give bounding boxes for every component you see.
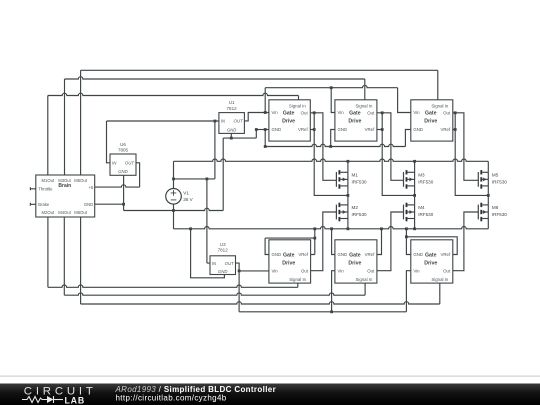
wire GND jog line: [124, 208, 224, 210]
svg-text:M4Out: M4Out: [58, 210, 71, 215]
svg-text:IRF530: IRF530: [492, 212, 508, 217]
transistor M4 IRF530: [403, 205, 405, 220]
wire GD6 GND riser: [406, 229, 410, 255]
svg-text:VRef: VRef: [298, 127, 308, 132]
svg-text:Gate: Gate: [349, 252, 361, 258]
svg-text:Signal In: Signal In: [431, 103, 448, 108]
svg-text:7812: 7812: [218, 248, 229, 253]
wire GD4 VRef riser: [311, 229, 315, 255]
svg-text:Vin: Vin: [272, 110, 279, 115]
svg-text:Vin: Vin: [338, 269, 345, 274]
regulator U1 7812: [219, 113, 245, 134]
wire gate drive VRef to phase: [310, 129, 314, 131]
gate drive U3a top box: [411, 100, 453, 141]
wire M1Out net: [47, 96, 49, 176]
svg-text:M2: M2: [352, 205, 359, 210]
svg-text:U6: U6: [120, 142, 126, 147]
node +36V junctions: [172, 178, 175, 181]
wire U1 GND stub: [230, 133, 232, 138]
svg-text:Gate: Gate: [425, 252, 437, 258]
wire gate drive VRef to phase: [377, 129, 382, 131]
wire bottom gate drive Out to FET gate: [453, 212, 479, 271]
svg-text:Signal In: Signal In: [289, 277, 306, 282]
svg-text:OUT: OUT: [234, 119, 243, 124]
wire gate drive Out to FET gate: [310, 113, 336, 181]
svg-text:GND: GND: [218, 269, 228, 274]
svg-text:VRef: VRef: [441, 127, 451, 132]
gate drive U5a bottom box: [335, 240, 377, 283]
wire U6 GND stub: [123, 175, 125, 210]
svg-text:Signal In: Signal In: [289, 103, 306, 108]
svg-text:Drive: Drive: [282, 261, 295, 267]
wire +36V top rail: [173, 161, 175, 179]
svg-text:Out: Out: [301, 111, 309, 116]
wire +36V branch to U1/U3 inputs: [174, 178, 215, 180]
wire U3 GND loop: [191, 229, 225, 278]
footer black bar: [0, 384, 540, 405]
wire top GND rail: [265, 144, 405, 146]
wire U1 IN line: [107, 120, 219, 122]
svg-text:36 V: 36 V: [183, 197, 193, 202]
footer separator line: [0, 375, 540, 377]
gate drive U2a top box: [335, 100, 377, 141]
wire M3 drain to +36V: [414, 161, 416, 172]
svg-text:Drive: Drive: [424, 119, 437, 125]
svg-text:Out: Out: [443, 111, 451, 116]
svg-text:Signal In: Signal In: [355, 277, 372, 282]
transistor M3 IRF530: [403, 172, 405, 187]
svg-text:7812: 7812: [227, 106, 238, 111]
wire V1- source rail: [174, 226, 489, 228]
svg-text:VRef: VRef: [365, 127, 375, 132]
wire M5 source to phase C: [487, 186, 489, 205]
wire M6 source to rail: [487, 219, 489, 229]
svg-text:Gate: Gate: [349, 111, 361, 117]
svg-text:Gate: Gate: [283, 111, 295, 117]
wire V1 minus lead: [173, 204, 175, 229]
svg-text:GND: GND: [413, 252, 423, 257]
transistor M2 IRF530: [335, 205, 337, 220]
wire M5 drain to +36V: [487, 161, 489, 172]
svg-text:VRef: VRef: [441, 252, 451, 257]
svg-text:Drive: Drive: [424, 261, 437, 267]
svg-text:OUT: OUT: [225, 261, 234, 266]
svg-text:Out: Out: [367, 269, 375, 274]
svg-text:GND: GND: [227, 128, 237, 133]
regulator U6 7805: [110, 154, 136, 175]
svg-text:Out: Out: [301, 269, 309, 274]
svg-text:IRF530: IRF530: [418, 212, 434, 217]
svg-text:M1: M1: [352, 172, 359, 177]
gate drive U1a top box: [269, 100, 310, 141]
wire GD5 GND riser: [332, 229, 335, 255]
transistor M1 IRF530: [335, 172, 337, 187]
svg-text:Vin: Vin: [413, 269, 420, 274]
wire M2 source to rail: [347, 219, 349, 229]
transistor M5 IRF530: [477, 172, 479, 187]
wire gate drive Out to FET gate: [453, 113, 479, 181]
gate drive U6a bottom box: [411, 240, 453, 283]
svg-text:Brain: Brain: [58, 183, 71, 189]
svg-text:GND: GND: [338, 252, 348, 257]
svg-text:Vin: Vin: [338, 110, 345, 115]
wire V1 plus lead: [173, 179, 175, 189]
wire bottom gate drive Out to FET gate: [311, 212, 337, 271]
svg-text:M5Out: M5Out: [74, 178, 87, 183]
svg-text:GND: GND: [272, 127, 282, 132]
svg-text:Drive: Drive: [348, 119, 361, 125]
svg-text:GND: GND: [413, 127, 423, 132]
wire U1 GND drop: [222, 138, 224, 210]
wire M4Out net: [63, 217, 65, 295]
wire U6 OUT to brain +5: [136, 163, 140, 187]
svg-text:M5: M5: [492, 172, 499, 177]
svg-text:LAB: LAB: [65, 395, 85, 405]
wire U3 IN feed: [207, 179, 210, 263]
svg-text:IRF530: IRF530: [352, 180, 368, 185]
svg-text:Gate: Gate: [283, 252, 295, 258]
wire M2Out net: [47, 217, 49, 287]
gate drive U4a bottom box: [269, 240, 311, 283]
wire M3 source to phase B: [414, 186, 416, 205]
svg-text:V1: V1: [183, 190, 189, 195]
brain block U? "Brain": [36, 175, 95, 217]
wire gate drive VRef to phase: [453, 129, 455, 131]
svg-text:IRF530: IRF530: [418, 180, 434, 185]
wire brain GND: [95, 203, 124, 205]
svg-text:Vin: Vin: [272, 269, 279, 274]
svg-text:U3: U3: [220, 242, 226, 247]
wire GD2 GND riser: [331, 130, 335, 147]
wire M1 source to phase A: [347, 186, 349, 205]
svg-text:M6Out: M6Out: [74, 210, 87, 215]
wire GD1 GND: [256, 129, 269, 131]
svg-text:http://circuitlab.com/cyzhg4b: http://circuitlab.com/cyzhg4b: [116, 393, 227, 402]
svg-text:VRef: VRef: [298, 252, 308, 257]
svg-text:+5: +5: [88, 185, 93, 190]
wire M4 source to rail: [414, 219, 416, 229]
brain throttle stub: [30, 187, 35, 190]
svg-text:M1Out: M1Out: [42, 178, 55, 183]
svg-text:Drive: Drive: [282, 119, 295, 125]
voltage source V1 36V: [166, 189, 182, 205]
svg-text:IRF530: IRF530: [492, 180, 508, 185]
svg-text:Out: Out: [367, 111, 375, 116]
svg-text:GND: GND: [118, 169, 128, 174]
svg-text:GND: GND: [84, 202, 93, 207]
regulator U3 7812: [210, 256, 236, 275]
svg-text:IRF530: IRF530: [352, 212, 368, 217]
wire +12V top rail: [264, 88, 266, 113]
svg-text:VRef: VRef: [365, 252, 375, 257]
wire U3 OUT +12V bottom: [236, 263, 240, 312]
svg-text:Out: Out: [443, 269, 451, 274]
svg-text:M3: M3: [418, 172, 425, 177]
wire M6Out net: [80, 217, 82, 304]
svg-text:7805: 7805: [118, 148, 129, 153]
wire GD2 Vin riser: [331, 88, 335, 113]
svg-text:Signal In: Signal In: [355, 103, 372, 108]
wire U1 OUT to GD1 Vin: [244, 113, 269, 121]
svg-text:Gate: Gate: [425, 111, 437, 117]
brain brake stub: [30, 203, 35, 206]
transistor M6 IRF530: [477, 205, 479, 220]
svg-text:M2Out: M2Out: [42, 210, 55, 215]
wire M1 drain to +36V: [347, 161, 349, 172]
wire GD5 VRef riser: [377, 229, 382, 255]
svg-text:M6: M6: [492, 205, 499, 210]
svg-text:Vin: Vin: [413, 110, 420, 115]
svg-text:OUT: OUT: [125, 161, 134, 166]
svg-text:Drive: Drive: [348, 261, 361, 267]
svg-text:Throttle: Throttle: [38, 186, 53, 191]
svg-text:GND: GND: [338, 127, 348, 132]
svg-text:U1: U1: [229, 100, 235, 105]
wire GD6 Vin riser: [406, 271, 410, 312]
wire bottom gate drive Out to FET gate: [377, 212, 404, 271]
wire U6 IN riser: [107, 121, 111, 163]
wire M3Out net: [64, 79, 66, 175]
wire gate drive Out to FET gate: [377, 113, 404, 181]
svg-text:Brake: Brake: [38, 202, 50, 207]
svg-text:M4: M4: [418, 205, 425, 210]
svg-text:CIRCUIT: CIRCUIT: [24, 385, 97, 397]
wire GD4 GND loop: [265, 238, 269, 254]
svg-text:GND: GND: [272, 252, 282, 257]
svg-text:Signal In: Signal In: [431, 277, 448, 282]
wire M5Out net: [80, 70, 82, 175]
wire GD4 Vin: [239, 270, 269, 272]
wire GD5 Vin riser: [332, 271, 335, 312]
wire GD6 VRef loop: [406, 237, 457, 255]
circuitlab logo glyph resistor-diode: [22, 396, 63, 403]
